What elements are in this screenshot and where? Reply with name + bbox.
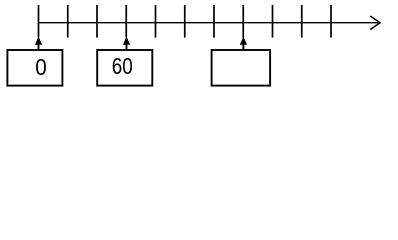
tick 5 xyxy=(155,5,157,38)
box 1 xyxy=(7,50,62,86)
axis arrowhead xyxy=(370,16,380,30)
box 2 xyxy=(97,50,152,86)
number line axis xyxy=(39,22,379,24)
arrow 1 (to tick 1) xyxy=(35,37,42,50)
svg-text:0: 0 xyxy=(35,54,47,80)
tick 1 xyxy=(38,5,40,38)
tick 7 xyxy=(213,5,215,38)
tick 11 xyxy=(330,5,332,38)
tick 6 xyxy=(184,5,186,38)
svg-text:60: 60 xyxy=(112,53,133,79)
tick 2 xyxy=(67,5,69,38)
tick 9 xyxy=(272,5,274,38)
arrow 3 (to tick 8) xyxy=(240,37,247,50)
tick 10 xyxy=(301,5,303,38)
box 3 (empty) xyxy=(212,50,271,86)
arrow 2 (to tick 4) xyxy=(123,37,130,50)
tick 8 xyxy=(242,5,244,38)
tick 4 xyxy=(125,5,127,38)
tick 3 xyxy=(96,5,98,38)
